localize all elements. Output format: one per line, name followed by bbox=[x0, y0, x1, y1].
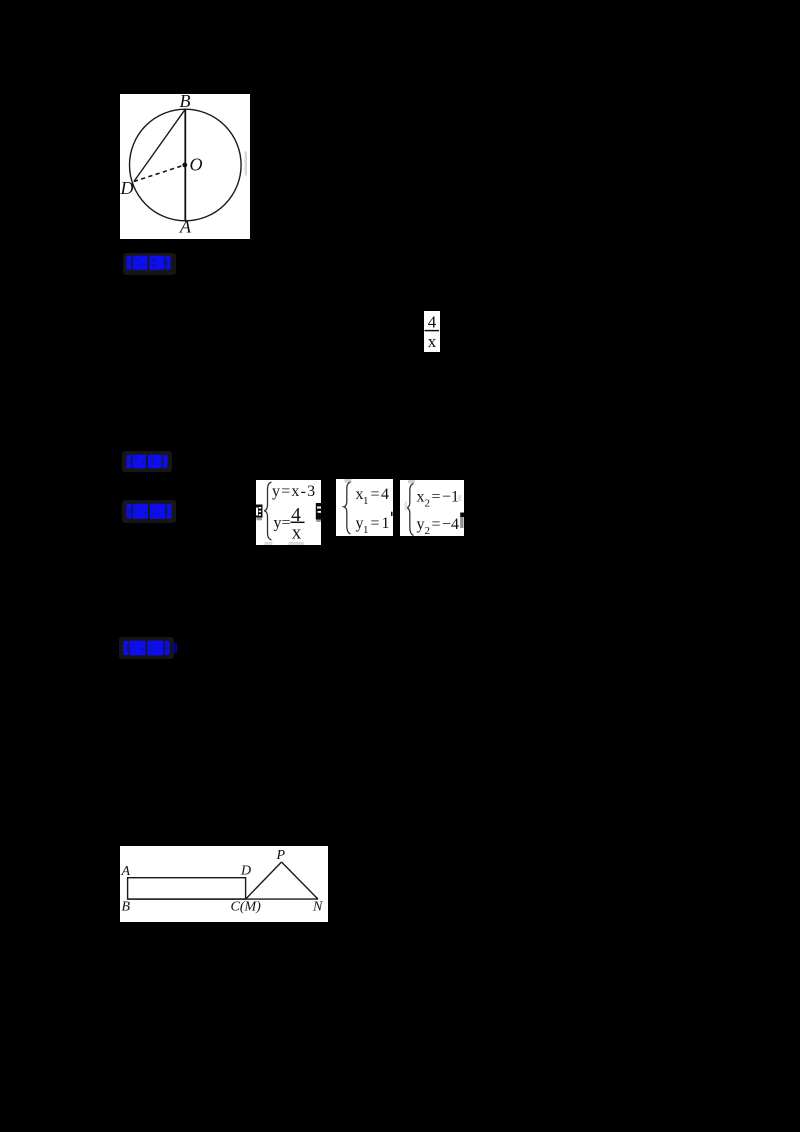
equation system box: y=x-3 ; y=4/x bbox=[256, 480, 321, 545]
fraction bar bbox=[290, 521, 304, 523]
fraction bar bbox=[425, 330, 440, 332]
chord BD bbox=[134, 109, 185, 181]
svg-text:x: x bbox=[291, 522, 301, 543]
blue label 4 bbox=[119, 637, 174, 659]
svg-text:1: 1 bbox=[363, 524, 369, 536]
svg-text:D: D bbox=[240, 864, 251, 879]
svg-text:4: 4 bbox=[428, 313, 437, 332]
svg-text:x: x bbox=[417, 488, 425, 505]
gray sliver near right edge bbox=[245, 152, 247, 176]
diameter AB (vertical line) bbox=[184, 109, 186, 221]
left brace bbox=[407, 483, 414, 535]
blue label 1 bbox=[123, 253, 176, 275]
svg-text:1: 1 bbox=[363, 495, 369, 507]
svg-text:1: 1 bbox=[382, 515, 390, 532]
black glyph fragment at left edge bbox=[256, 504, 263, 517]
dashed radius OD bbox=[134, 165, 185, 182]
rectangle ABCD bbox=[127, 878, 245, 899]
gray smudges at bottom bbox=[264, 541, 272, 544]
svg-text:N: N bbox=[312, 900, 323, 915]
blue label 2 bbox=[122, 451, 172, 472]
triangle side P-N bbox=[281, 862, 318, 899]
triangle side C-P bbox=[245, 862, 281, 899]
big left brace bbox=[264, 482, 271, 540]
black fragment right edge bbox=[460, 512, 464, 517]
svg-text:=: = bbox=[371, 486, 380, 503]
circle O bbox=[130, 109, 242, 221]
svg-text:=: = bbox=[371, 515, 380, 532]
base line B to N bbox=[127, 898, 317, 900]
svg-text:y: y bbox=[417, 516, 425, 533]
left brace bbox=[344, 482, 351, 534]
svg-text:4: 4 bbox=[381, 486, 389, 503]
svg-text:B: B bbox=[121, 900, 130, 915]
svg-text:=: = bbox=[432, 516, 441, 533]
gray notch top bbox=[344, 479, 351, 482]
solution box 1: x1=4 ; y1=1 bbox=[336, 479, 393, 536]
svg-text:=: = bbox=[432, 488, 441, 505]
black tick right edge bbox=[391, 512, 393, 516]
svg-text:−1: −1 bbox=[442, 488, 459, 505]
fraction 4/x bbox=[424, 311, 440, 352]
svg-text:A: A bbox=[179, 217, 192, 237]
svg-text:B: B bbox=[180, 94, 191, 111]
solution box 2: x2=-1 ; y2=-4 bbox=[400, 480, 464, 537]
black glyph fragment at right edge bbox=[315, 503, 320, 520]
blue label 3 bbox=[122, 500, 176, 523]
figure 1: circle with diameter AB, chord BD, radius OD bbox=[120, 94, 250, 239]
svg-text:y=x-3: y=x-3 bbox=[272, 483, 316, 500]
center dot O bbox=[182, 163, 187, 168]
svg-text:x: x bbox=[428, 332, 437, 351]
svg-text:A: A bbox=[120, 864, 130, 879]
figure 2: rectangle ABCD with triangle PCN bbox=[120, 846, 328, 922]
svg-text:O: O bbox=[190, 155, 203, 175]
gray sliver right bbox=[458, 495, 461, 501]
svg-text:2: 2 bbox=[425, 525, 431, 537]
svg-text:D: D bbox=[120, 178, 134, 198]
gray sliver left bbox=[405, 501, 408, 510]
faint dark-blue tick right of label 4 bbox=[173, 643, 177, 653]
gray notch top bbox=[408, 480, 415, 483]
svg-text:y=: y= bbox=[273, 514, 290, 531]
svg-text:2: 2 bbox=[425, 497, 431, 509]
svg-text:P: P bbox=[275, 848, 285, 863]
svg-text:C(M): C(M) bbox=[230, 900, 261, 915]
svg-text:−4: −4 bbox=[442, 516, 459, 533]
